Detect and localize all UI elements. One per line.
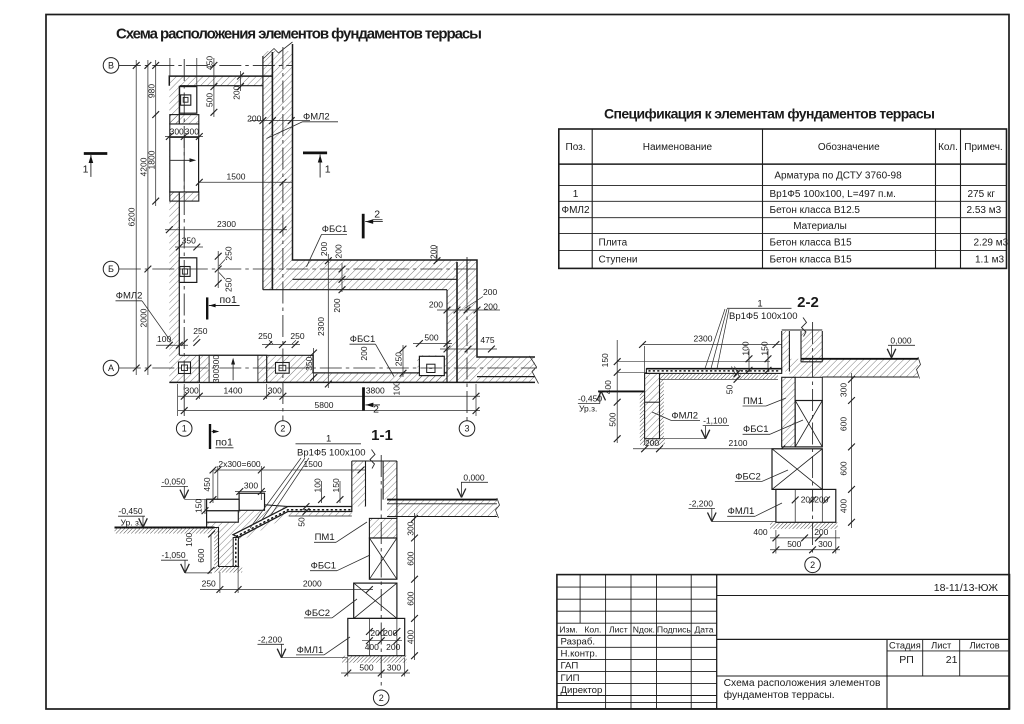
break mark right extension end: [530, 356, 539, 384]
svg-text:Лист: Лист: [931, 640, 952, 650]
svg-text:1: 1: [757, 298, 762, 309]
wall hatch: axis-B horizontal band: [293, 260, 478, 290]
svg-text:21: 21: [946, 654, 958, 666]
marker po1 lower: [209, 424, 211, 449]
svg-text:Бетон класса В15: Бетон класса В15: [770, 255, 853, 266]
svg-text:200: 200: [332, 298, 342, 312]
svg-text:250: 250: [202, 579, 216, 589]
svg-text:1: 1: [326, 434, 331, 445]
band outlines: [169, 44, 535, 382]
dim lines left: [136, 58, 214, 375]
svg-text:2300: 2300: [217, 219, 236, 229]
svg-text:Nдок.: Nдок.: [633, 624, 655, 634]
svg-text:150: 150: [760, 341, 770, 355]
hatch band under slab: [238, 512, 351, 542]
svg-text:200: 200: [231, 85, 241, 99]
svg-text:200: 200: [383, 628, 397, 638]
svg-text:200: 200: [814, 495, 828, 505]
wall hatch: bottom band thin part: [313, 373, 447, 383]
SECTION11: [115, 434, 500, 706]
svg-text:1800: 1800: [147, 150, 157, 169]
step lower: [207, 499, 240, 511]
wall under terrace slab: [782, 377, 796, 447]
dim 250 block3: [402, 345, 404, 377]
svg-text:250: 250: [224, 278, 234, 292]
svg-text:ГИП: ГИП: [561, 673, 580, 684]
svg-text:400: 400: [839, 499, 849, 513]
svg-text:Директор: Директор: [561, 685, 603, 696]
ground hatch along buried face: [214, 528, 218, 571]
svg-text:Разраб.: Разраб.: [561, 637, 596, 648]
svg-text:350: 350: [304, 356, 314, 370]
svg-text:200: 200: [814, 527, 828, 537]
dim 50: [303, 503, 310, 510]
svg-text:2000: 2000: [139, 308, 149, 327]
section mark 2 bottom: [362, 387, 365, 410]
svg-text:300: 300: [818, 539, 832, 549]
step upper: [239, 493, 264, 510]
svg-text:Спецификация к элементам фунда: Спецификация к элементам фундаментов тер…: [604, 106, 935, 122]
svg-text:5800: 5800: [315, 400, 334, 410]
block FBS2: [354, 583, 397, 618]
svg-text:по1: по1: [220, 294, 238, 306]
axis line 2: [282, 47, 284, 421]
svg-text:-2,200: -2,200: [258, 634, 282, 644]
block FBS1: [369, 538, 397, 579]
svg-text:100: 100: [392, 381, 402, 395]
svg-text:200: 200: [429, 300, 443, 310]
hatched plate band B1: [170, 115, 199, 124]
footing internal dims: [366, 628, 373, 635]
floor slab 0.000: [387, 500, 497, 517]
svg-text:50: 50: [297, 517, 307, 527]
block FBS2: [772, 449, 822, 490]
svg-text:0,000: 0,000: [463, 472, 485, 482]
svg-text:ФБС1: ФБС1: [322, 224, 348, 235]
terrace slab sloped part: [233, 507, 352, 538]
svg-text:по1: по1: [216, 436, 234, 448]
svg-text:ФБС1: ФБС1: [350, 334, 376, 345]
svg-text:2: 2: [374, 209, 380, 221]
B-axis pilaster: [179, 258, 197, 283]
tall plate FML2: [170, 137, 199, 192]
svg-text:Лист: Лист: [609, 624, 628, 634]
wall left hatched strip: [352, 461, 366, 507]
white band with 300/300: [170, 124, 199, 137]
svg-text:300: 300: [387, 662, 401, 672]
column block in P1: [181, 95, 191, 105]
svg-text:А: А: [108, 363, 114, 373]
svg-text:2x300=600: 2x300=600: [218, 459, 261, 469]
svg-text:ФМЛ2: ФМЛ2: [116, 291, 143, 302]
hatched plate band B2: [170, 192, 199, 201]
svg-text:2300: 2300: [316, 317, 326, 336]
wall hatch: left wall strip: [169, 86, 179, 356]
svg-text:Бетон класса В12.5: Бетон класса В12.5: [770, 205, 861, 216]
svg-text:ФМЛ2: ФМЛ2: [671, 410, 698, 421]
svg-text:ГАП: ГАП: [561, 661, 579, 672]
svg-text:300: 300: [244, 481, 258, 491]
ground line left: [598, 390, 645, 392]
svg-text:ФМЛ1: ФМЛ1: [728, 506, 755, 517]
svg-text:1-1: 1-1: [371, 427, 393, 444]
svg-text:450: 450: [204, 56, 214, 70]
ground hatch under footing: [342, 656, 407, 663]
svg-text:Дата: Дата: [694, 624, 713, 634]
slab break mark: [732, 367, 740, 377]
axis line 3: [466, 257, 468, 421]
svg-text:200: 200: [484, 302, 498, 312]
svg-text:600: 600: [406, 591, 416, 605]
circle 2: [805, 557, 821, 573]
svg-text:2300: 2300: [694, 334, 713, 344]
svg-text:Изм.: Изм.: [559, 624, 577, 634]
svg-text:250: 250: [193, 326, 207, 336]
white cell above block1: [795, 377, 822, 400]
dim 450/150 left rotated: [212, 470, 214, 503]
svg-text:0,000: 0,000: [890, 335, 912, 345]
footing FML1: [348, 618, 405, 655]
svg-text:2.29 м3: 2.29 м3: [974, 238, 1009, 249]
right section lines: [717, 595, 1010, 597]
dim 350 step: [313, 348, 315, 381]
dim 200 / 200 axis-2 band: [250, 120, 310, 122]
rebar dots: [649, 370, 780, 372]
wall hatch: block-3 plate: [417, 355, 447, 382]
dim 300/300 plate: [165, 136, 203, 138]
dims 100/150 top: [748, 349, 750, 372]
svg-text:200: 200: [319, 242, 329, 256]
left grid horizontals: [557, 586, 717, 588]
svg-text:1500: 1500: [304, 459, 323, 469]
dim 100 left bottom: [156, 344, 188, 346]
dim 350 pilaster: [175, 246, 203, 248]
monolith belt: [369, 518, 397, 538]
svg-text:-1,050: -1,050: [162, 550, 186, 560]
floor slab 0.000: [789, 359, 918, 377]
section mark 1 left: [84, 152, 108, 155]
svg-text:Подпись: Подпись: [657, 624, 692, 634]
svg-text:Поз.: Поз.: [566, 142, 586, 153]
svg-text:1: 1: [573, 189, 579, 200]
svg-text:150: 150: [600, 353, 610, 367]
svg-text:Кол.: Кол.: [584, 624, 601, 634]
dim 250 / 2000 bottom: [200, 589, 373, 591]
svg-text:450: 450: [202, 477, 212, 491]
svg-text:Стадия: Стадия: [889, 640, 921, 650]
svg-text:300: 300: [185, 385, 199, 395]
svg-text:600: 600: [839, 417, 849, 431]
svg-text:ФМЛ2: ФМЛ2: [303, 112, 330, 123]
svg-text:600: 600: [839, 461, 849, 475]
svg-text:250: 250: [290, 331, 304, 341]
svg-text:Кол.: Кол.: [938, 142, 958, 153]
svg-text:2: 2: [379, 693, 384, 703]
svg-text:ПМ1: ПМ1: [315, 532, 335, 543]
svg-text:300: 300: [211, 369, 221, 383]
axis circles: [103, 58, 475, 437]
dim 200 near Б band right: [436, 246, 438, 262]
dim 475: [440, 348, 497, 350]
svg-text:200: 200: [429, 245, 439, 259]
break mark top of axis-2 band: [263, 42, 293, 59]
svg-text:500: 500: [424, 333, 438, 343]
right wall strips: [782, 331, 790, 372]
footing internal dims: [792, 497, 799, 504]
svg-text:400: 400: [406, 630, 416, 644]
dim 200 top band: [240, 71, 242, 91]
svg-text:250: 250: [394, 352, 404, 366]
svg-text:В: В: [108, 61, 114, 71]
svg-text:2000: 2000: [303, 579, 322, 589]
dims left rotated: [616, 340, 618, 443]
dim 1500: [199, 181, 293, 183]
svg-text:400: 400: [603, 380, 613, 394]
svg-text:ФМЛ1: ФМЛ1: [297, 645, 324, 656]
ground hatch under footing of steps: [214, 567, 242, 573]
svg-text:Вр1Ф5 100x100, L=497 п.м.: Вр1Ф5 100x100, L=497 п.м.: [770, 189, 896, 200]
wall hatch: top band: [169, 76, 263, 86]
wall hatch: axis-3 vertical band: [447, 290, 477, 383]
svg-text:300: 300: [185, 127, 199, 137]
axis line 1: [183, 59, 185, 421]
PLAN: [83, 42, 539, 449]
svg-text:Материалы: Материалы: [793, 221, 847, 232]
svg-text:150: 150: [194, 499, 204, 513]
svg-text:350: 350: [182, 236, 196, 246]
axis line Б: [119, 268, 478, 270]
svg-text:фундаментов террасы.: фундаментов террасы.: [724, 689, 835, 701]
svg-text:500: 500: [204, 93, 214, 107]
dim 2x300=600 and 1500: [213, 469, 365, 471]
svg-text:ФБС2: ФБС2: [735, 471, 761, 482]
svg-text:400: 400: [753, 527, 767, 537]
svg-text:Обозначение: Обозначение: [818, 141, 880, 153]
right dim chain: [851, 373, 853, 528]
svg-text:3: 3: [464, 424, 469, 434]
bottom dims 500/300: [341, 672, 410, 674]
hatch band under slab: [660, 373, 779, 379]
block 3: [419, 356, 444, 375]
svg-text:100: 100: [184, 532, 194, 546]
svg-text:100: 100: [312, 478, 322, 492]
rebar leader lines: [705, 309, 729, 369]
svg-text:600: 600: [406, 551, 416, 565]
svg-text:ФБС2: ФБС2: [305, 608, 331, 619]
svg-text:Ур.з.: Ур.з.: [579, 404, 597, 414]
svg-text:РП: РП: [899, 654, 914, 666]
svg-text:200: 200: [645, 438, 659, 448]
svg-text:1: 1: [325, 164, 331, 176]
marker po1 upper: [206, 297, 208, 319]
block FBS1: [795, 401, 822, 447]
svg-text:250: 250: [224, 246, 234, 260]
svg-text:1: 1: [83, 163, 89, 175]
bottom dimension row 1: [178, 395, 480, 397]
plate arrow: [170, 159, 194, 161]
svg-text:2: 2: [373, 404, 379, 416]
svg-text:18-11/13-ЮЖ: 18-11/13-ЮЖ: [934, 582, 999, 594]
wall right hatched strip: [383, 461, 397, 500]
left grid verticals: [579, 575, 581, 624]
svg-text:Плита: Плита: [599, 238, 628, 249]
svg-text:1.1 м3: 1.1 м3: [975, 255, 1005, 266]
svg-text:200: 200: [247, 113, 261, 123]
svg-text:ПМ1: ПМ1: [743, 396, 763, 407]
svg-text:500: 500: [607, 412, 617, 426]
dim 250/250 at Б: [217, 251, 219, 288]
plate P1 upper-left: [180, 87, 197, 114]
svg-text:Ур. з.: Ур. з.: [121, 517, 142, 527]
1400 element: [199, 355, 266, 382]
wall top break: [782, 329, 823, 331]
dim 200 under plate: [641, 445, 648, 452]
svg-text:Схема расположения элементов: Схема расположения элементов: [724, 678, 881, 689]
svg-text:2100: 2100: [729, 438, 748, 448]
svg-text:200: 200: [386, 642, 400, 652]
svg-text:2-2: 2-2: [797, 294, 819, 311]
dim 2300: [643, 344, 782, 346]
dim 2300 vertical room: [327, 261, 329, 388]
SECTION22: [578, 294, 921, 573]
svg-text:ФБС1: ФБС1: [743, 424, 769, 435]
svg-text:Вр1Ф5 100x100: Вр1Ф5 100x100: [729, 311, 798, 322]
bottom dims: [770, 537, 840, 539]
ground along pier face: [640, 391, 645, 438]
svg-text:-2,200: -2,200: [689, 498, 713, 508]
dim 100/600 left: [208, 531, 215, 538]
svg-text:Арматура по ДСТУ 3760-98: Арматура по ДСТУ 3760-98: [774, 170, 902, 181]
svg-text:600: 600: [196, 548, 206, 562]
svg-text:Н.контр.: Н.контр.: [561, 649, 598, 660]
dim 250 left bottom: [181, 339, 188, 346]
wall hatch: axis-2 vertical band: [263, 51, 293, 290]
terrace slab: [646, 369, 781, 374]
svg-text:Схема расположения элементов ф: Схема расположения элементов фундаментов…: [116, 26, 482, 43]
circle 2 bottom: [373, 690, 389, 706]
svg-text:Бетон класса В15: Бетон класса В15: [770, 238, 853, 249]
concrete mass under steps: [207, 493, 288, 566]
dim 2100: [633, 448, 782, 450]
svg-text:3800: 3800: [366, 385, 385, 395]
svg-text:980: 980: [147, 84, 157, 98]
svg-text:500: 500: [359, 662, 373, 672]
spec table grid: [559, 129, 1007, 268]
svg-text:275 кг: 275 кг: [968, 189, 996, 200]
ground hatch strip: [115, 528, 215, 534]
svg-text:50: 50: [725, 385, 735, 395]
svg-text:300: 300: [406, 521, 416, 535]
svg-text:1500: 1500: [227, 172, 246, 182]
dim 500 block3: [413, 343, 452, 345]
wall axis: [380, 455, 382, 688]
svg-text:300: 300: [268, 385, 282, 395]
svg-text:100: 100: [741, 341, 751, 355]
svg-text:400: 400: [365, 642, 379, 652]
svg-text:ФБС1: ФБС1: [311, 561, 337, 572]
section mark 2 top: [362, 214, 365, 239]
svg-text:Ступени: Ступени: [599, 255, 638, 266]
svg-text:200: 200: [359, 346, 369, 360]
wall hatch: bottom band deep part: [169, 355, 313, 382]
svg-text:250: 250: [258, 331, 272, 341]
spec table text: [561, 141, 1008, 266]
svg-text:300: 300: [839, 383, 849, 397]
dim 300 step: [235, 491, 266, 493]
svg-text:-1,100: -1,100: [703, 416, 727, 426]
svg-text:Вр1Ф5 100x100: Вр1Ф5 100x100: [297, 448, 366, 459]
svg-text:-0,450: -0,450: [119, 506, 143, 516]
wall axis: [812, 322, 814, 555]
dims 250/250 near axis2 bottom: [262, 344, 300, 346]
svg-text:1: 1: [182, 424, 187, 434]
svg-text:Примеч.: Примеч.: [964, 142, 1002, 153]
right dim chain: [414, 513, 416, 660]
bottom dimension row 2: [178, 410, 480, 412]
svg-text:2.53 м3: 2.53 м3: [967, 205, 1002, 216]
dim 100/150 at wall: [321, 481, 323, 503]
svg-text:200: 200: [333, 244, 343, 258]
svg-text:500: 500: [787, 539, 801, 549]
svg-text:Листов: Листов: [969, 640, 999, 650]
svg-text:Б: Б: [108, 264, 114, 274]
svg-text:300: 300: [211, 355, 221, 369]
axis line B: [119, 47, 537, 421]
rebar mesh leader lines: [250, 458, 309, 528]
svg-text:Наименование: Наименование: [643, 142, 713, 153]
block 1: [179, 362, 191, 374]
svg-text:6200: 6200: [127, 207, 137, 226]
svg-text:2: 2: [810, 560, 815, 570]
svg-text:300: 300: [170, 127, 184, 137]
axis line A: [119, 367, 537, 369]
dim 50: [734, 370, 741, 377]
dim row 200s right band: [437, 309, 500, 311]
block 2: [276, 363, 290, 374]
dims 200/200 above Б band: [327, 254, 329, 263]
wall top break: [352, 460, 397, 462]
svg-text:475: 475: [480, 335, 494, 345]
section mark 1 right: [303, 151, 327, 154]
svg-text:2: 2: [280, 424, 285, 434]
dim 2300 upper: [165, 229, 287, 231]
svg-text:150: 150: [331, 478, 341, 492]
rebar dots on slab: [233, 538, 238, 567]
ground line left: [115, 527, 215, 529]
ground under plate: [640, 439, 665, 446]
footing FML1: [776, 489, 836, 522]
left pier: [645, 373, 660, 438]
svg-text:1400: 1400: [224, 385, 243, 395]
svg-text:-0,050: -0,050: [162, 476, 186, 486]
svg-text:ФМЛ2: ФМЛ2: [561, 205, 589, 216]
svg-text:200: 200: [483, 287, 497, 297]
title block text: [559, 624, 713, 634]
wall hatch: right extension: [477, 357, 535, 382]
